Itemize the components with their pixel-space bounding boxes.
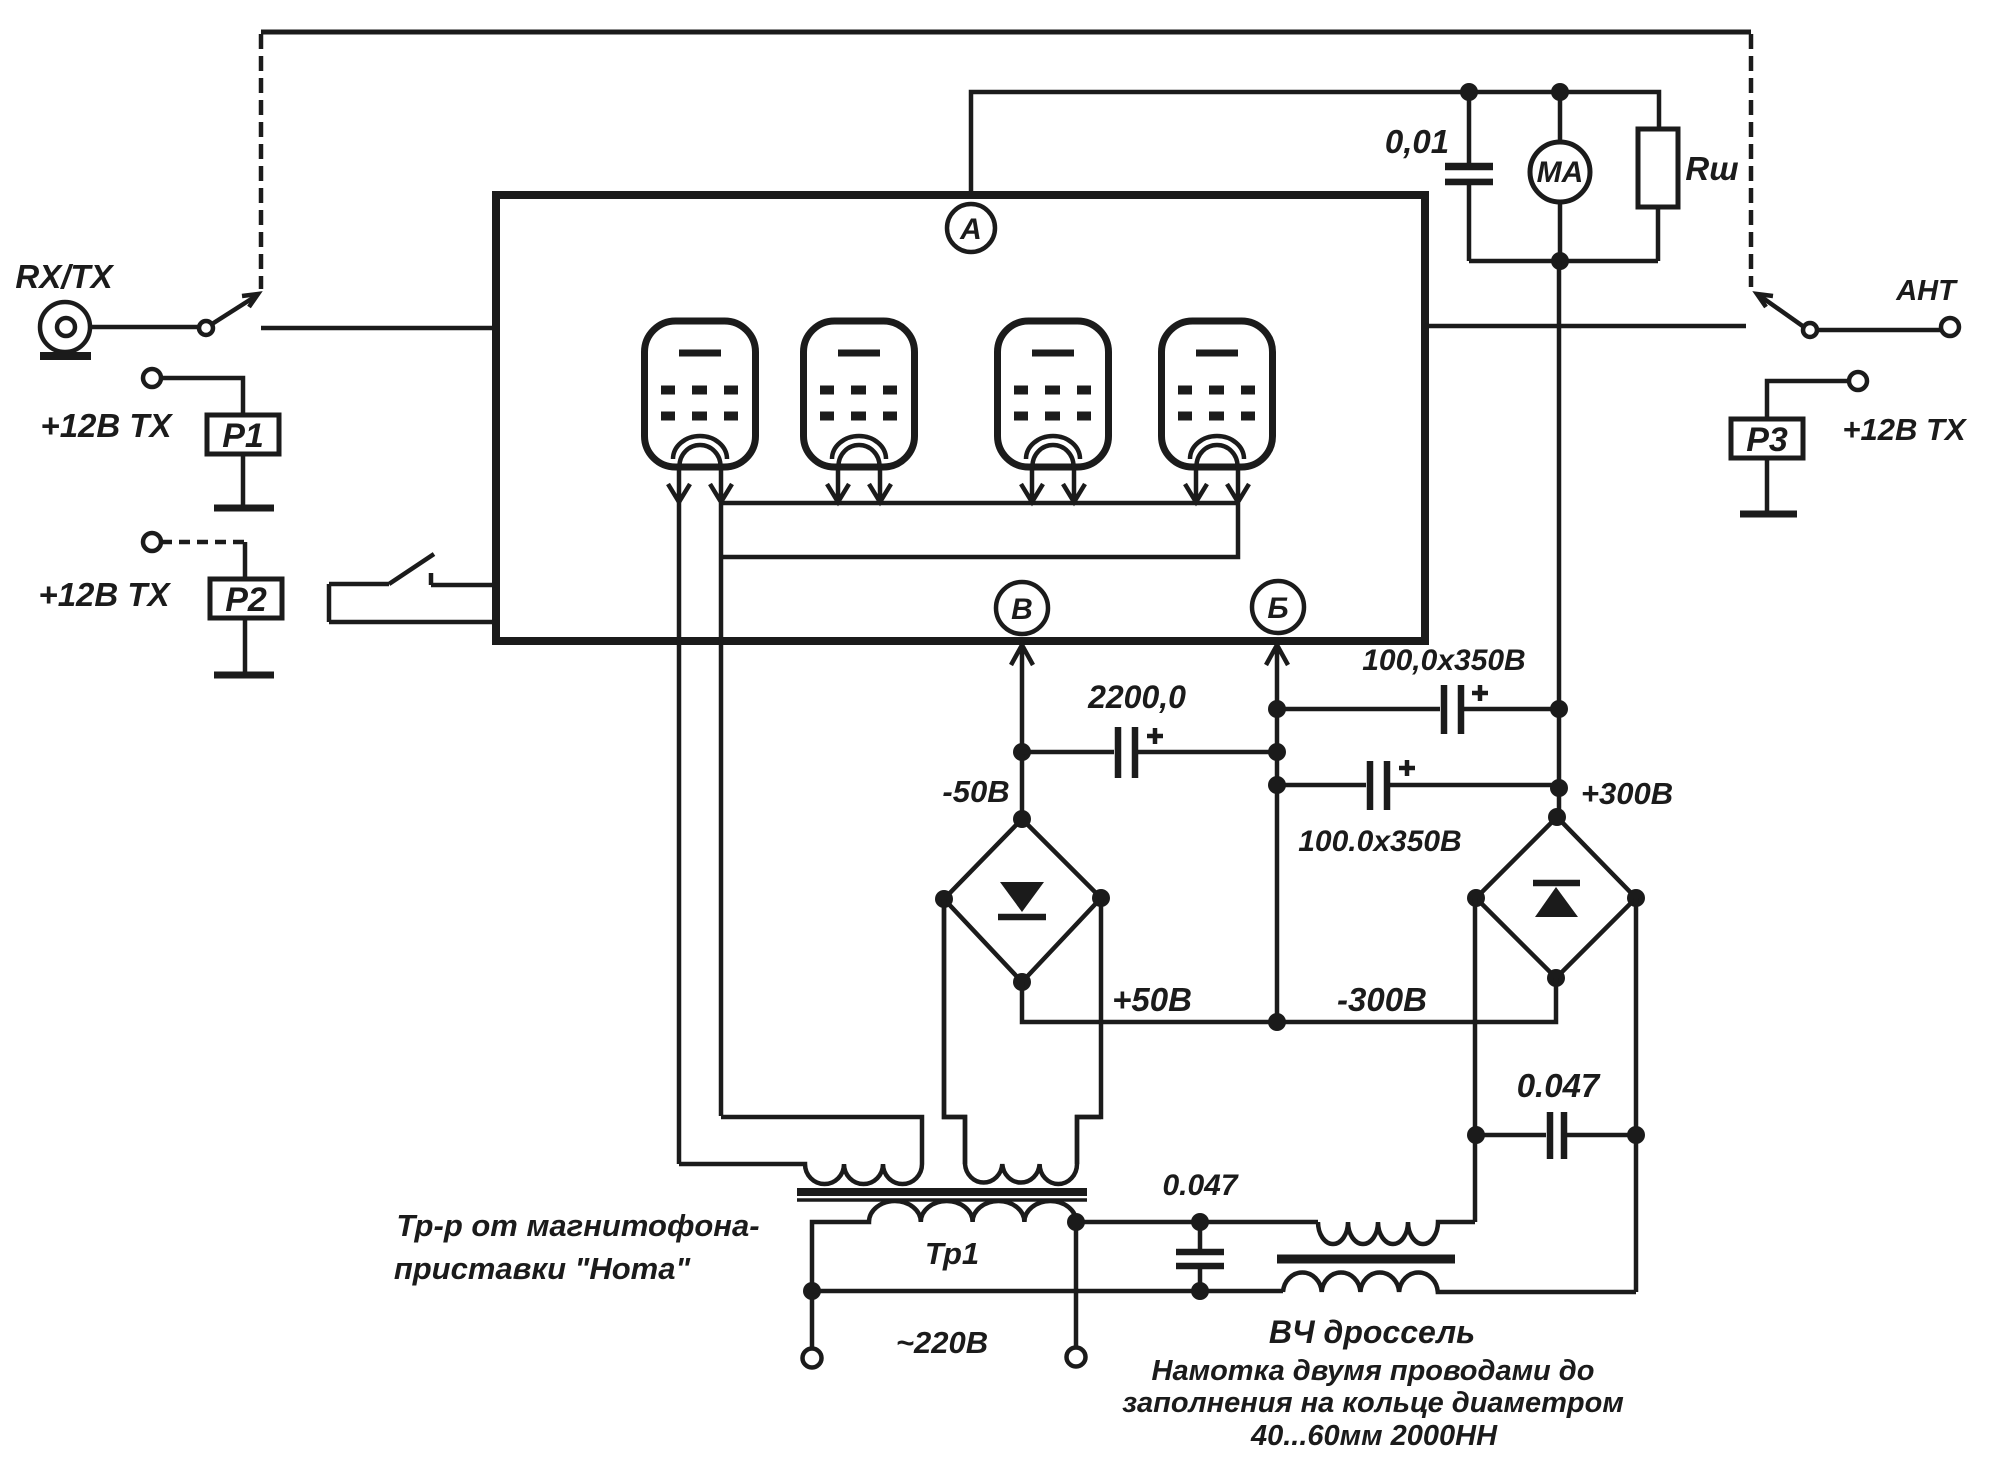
label winding note line 3	[1250, 1420, 1498, 1452]
ground chassis at RX/TX connector	[40, 352, 91, 360]
svg-text:-50В: -50В	[942, 774, 1009, 809]
node dot VD1 left	[935, 890, 953, 908]
label 0.047 middle	[1162, 1169, 1238, 1202]
label 0.047 right	[1517, 1067, 1601, 1104]
terminal +12V TX for P1	[143, 369, 161, 387]
wire meter bottom bus	[1469, 259, 1658, 264]
meter MA	[1530, 92, 1590, 261]
label +12B TX right	[1842, 412, 1968, 447]
wire heater bus top rail	[721, 501, 1238, 506]
node Б arrow and vertical wire	[1266, 645, 1288, 1023]
label transformer note line 2	[394, 1251, 692, 1286]
wire primary top line to choke cap	[1076, 1220, 1318, 1225]
svg-text:+12В TX: +12В TX	[38, 576, 171, 613]
node dot VD2 right	[1627, 889, 1645, 907]
telegraph key	[329, 554, 496, 622]
svg-text:+12В TX: +12В TX	[40, 407, 173, 444]
node B circle label	[996, 582, 1048, 634]
capacitor 2200,0	[1022, 727, 1277, 778]
ground of P1	[214, 505, 274, 512]
svg-text:Б: Б	[1267, 592, 1288, 625]
switch S1 RX/TX relay contact	[199, 294, 258, 335]
node dot cap001 top	[1460, 83, 1478, 101]
svg-text:+300В: +300В	[1581, 776, 1673, 811]
terminal +12V TX for P2	[143, 533, 161, 551]
wire relay P1 to ground	[241, 454, 246, 505]
capacitor 0,01	[1445, 92, 1493, 261]
svg-text:Тр1: Тр1	[925, 1236, 979, 1271]
node A anode bus wire	[971, 92, 1659, 195]
svg-text:ВЧ дроссель: ВЧ дроссель	[1269, 1314, 1475, 1350]
capacitor 100,0x350V upper	[1277, 685, 1559, 734]
tube VL1	[645, 321, 756, 502]
relay P2	[210, 579, 282, 619]
node dot VD1 bottom	[1013, 973, 1031, 991]
node dot primary right	[1067, 1213, 1085, 1231]
wire heater drop right to Tr1	[719, 503, 724, 1116]
connector XW1 RX/TX coax	[40, 302, 90, 352]
wire heater return rail	[721, 503, 1238, 557]
label 100.0x350V lower	[1298, 825, 1461, 858]
wire +300V long vertical	[1557, 261, 1562, 817]
label +50V	[1112, 981, 1192, 1018]
svg-text:заполнения на кольце диаметром: заполнения на кольце диаметром	[1122, 1387, 1624, 1419]
capacitor 100.0x350V lower	[1277, 760, 1559, 810]
label 0,01	[1385, 123, 1449, 160]
label winding note line 2	[1122, 1387, 1624, 1419]
wire mains rail bottom	[810, 1291, 815, 1348]
node dot +300V upper cap	[1550, 700, 1568, 718]
node dot meter top	[1551, 83, 1569, 101]
wire VD1 left AC lead to Tr1	[944, 899, 965, 1164]
diode bridge VD2	[1476, 817, 1636, 978]
svg-text:приставки "Нота": приставки "Нота"	[394, 1251, 692, 1286]
node dot meter bottom	[1551, 252, 1569, 270]
label VCh drossel	[1269, 1314, 1475, 1350]
terminal mains right	[1067, 1348, 1086, 1367]
tube VL4	[1162, 321, 1273, 502]
PA box outline	[496, 195, 1425, 641]
node dot Б lower cap	[1268, 776, 1286, 794]
node A circle label	[947, 204, 995, 252]
label RX/TX	[15, 258, 114, 295]
tube VL2	[804, 321, 915, 502]
node dot 0.047 middle bottom	[1191, 1282, 1209, 1300]
wire switch to ANT terminal	[1818, 328, 1941, 333]
svg-text:МА: МА	[1537, 156, 1584, 189]
node dot VD2 top	[1548, 808, 1566, 826]
node dot VD1 right	[1092, 889, 1110, 907]
label 2200,0	[1087, 679, 1186, 715]
label transformer note line 1	[396, 1208, 759, 1243]
wire VD2 right AC lead to choke	[1634, 898, 1639, 1292]
wire dashed left riser to RX/TX switch	[259, 34, 264, 289]
wire RX/TX connector to switch pivot	[90, 325, 199, 330]
svg-text:0,01: 0,01	[1385, 123, 1449, 160]
resistor Rsh	[1638, 129, 1678, 261]
svg-text:0.047: 0.047	[1162, 1169, 1238, 1202]
node dot Б upper cap	[1268, 700, 1286, 718]
node dot Б cap2200	[1268, 743, 1286, 761]
label winding note line 1	[1152, 1355, 1595, 1387]
label Rsh	[1685, 150, 1738, 187]
capacitor 0.047 middle	[1176, 1222, 1224, 1291]
switch S2 ANT relay contact	[1757, 294, 1817, 337]
wire top bypass RX-ANT	[261, 30, 1751, 35]
svg-text:100,0x350В: 100,0x350В	[1362, 644, 1525, 677]
choke core	[1277, 1255, 1455, 1264]
svg-text:В: В	[1011, 593, 1033, 626]
capacitor 0.047 right	[1476, 1112, 1636, 1159]
svg-text:~220В: ~220В	[896, 1325, 988, 1360]
svg-text:Намотка двумя проводами до: Намотка двумя проводами до	[1152, 1355, 1595, 1387]
relay P1	[207, 415, 279, 455]
wire bottom rail to choke	[812, 1289, 1283, 1294]
svg-text:0.047: 0.047	[1517, 1067, 1601, 1104]
transformer Tr1 secondary 50V winding	[944, 899, 1101, 1184]
terminal ANT	[1941, 318, 1959, 336]
svg-text:+12В TX: +12В TX	[1842, 412, 1968, 447]
wire terminal to relay P3	[1767, 381, 1849, 419]
wire primary right lead	[1074, 1222, 1079, 1348]
tube VL3	[998, 321, 1109, 502]
wire VD1 right AC lead to Tr1	[1077, 898, 1101, 1164]
label -50V	[942, 774, 1009, 809]
label +12B TX upper	[40, 407, 173, 444]
choke lower winding	[1283, 1273, 1636, 1292]
diode bridge VD1	[944, 819, 1101, 982]
label ANT	[1895, 275, 1958, 307]
node dot 0.047 middle top	[1191, 1213, 1209, 1231]
node dot 0.047 right right	[1627, 1126, 1645, 1144]
node dot 0.047 right left	[1467, 1126, 1485, 1144]
wire RX/TX switch to PA box	[261, 326, 496, 331]
svg-text:P2: P2	[225, 581, 267, 619]
label -300V	[1337, 981, 1427, 1018]
node dot VD2 left	[1467, 889, 1485, 907]
svg-text:RX/TX: RX/TX	[15, 258, 114, 295]
wire relay P2 to ground	[243, 618, 248, 672]
label Tr1	[925, 1236, 979, 1271]
choke upper winding	[1318, 1222, 1475, 1244]
label ~220V	[896, 1325, 988, 1360]
transformer Tr1 secondary heater winding	[679, 1117, 922, 1184]
wire dashed right riser to ANT switch	[1749, 34, 1754, 287]
diode symbol in VD2	[1533, 883, 1580, 917]
svg-text:40...60мм 2000НН: 40...60мм 2000НН	[1250, 1420, 1498, 1452]
svg-text:+50В: +50В	[1112, 981, 1192, 1018]
wire B node to bridge VD1	[1020, 752, 1025, 819]
svg-text:100.0x350В: 100.0x350В	[1298, 825, 1461, 858]
ground of P2	[214, 672, 274, 679]
node dot rail junction	[1268, 1013, 1286, 1031]
svg-text:2200,0: 2200,0	[1087, 679, 1186, 715]
diode symbol in VD1	[998, 882, 1046, 917]
wire dashed terminal to relay P2	[161, 542, 245, 579]
node dot VD2 bottom	[1547, 969, 1565, 987]
wire relay P3 to ground	[1765, 458, 1770, 511]
svg-text:-300В: -300В	[1337, 981, 1427, 1018]
wire heater drop left to Tr1	[677, 502, 682, 1164]
node B arrow and wire	[1011, 645, 1033, 752]
wire ANT from PA box	[1425, 324, 1746, 329]
svg-text:P3: P3	[1746, 421, 1788, 459]
node dot VD1 top	[1013, 810, 1031, 828]
terminal +12V TX for P3	[1849, 372, 1867, 390]
terminal mains left	[803, 1349, 822, 1368]
node dot B cap2200 junction	[1013, 743, 1031, 761]
label 100,0x350V upper	[1362, 644, 1525, 677]
transformer Tr1 primary winding	[812, 1201, 1076, 1291]
node dot +300V node	[1550, 779, 1568, 797]
relay P3	[1731, 419, 1803, 459]
wire terminal to relay P1	[161, 378, 243, 415]
node dot mains left	[803, 1282, 821, 1300]
wire VD2 left AC lead to choke	[1473, 898, 1478, 1222]
svg-text:P1: P1	[222, 417, 264, 455]
ground of P3	[1740, 511, 1797, 518]
transformer Tr1 core	[797, 1192, 1087, 1200]
label +300V	[1581, 776, 1673, 811]
svg-text:Rш: Rш	[1685, 150, 1738, 187]
svg-text:Тр-р от магнитофона-: Тр-р от магнитофона-	[396, 1208, 759, 1243]
svg-text:АНТ: АНТ	[1895, 275, 1958, 307]
node Б circle label	[1252, 581, 1304, 633]
label +12B TX lower	[38, 576, 171, 613]
svg-text:А: А	[959, 213, 982, 246]
wire DC common rail	[1022, 978, 1556, 1022]
